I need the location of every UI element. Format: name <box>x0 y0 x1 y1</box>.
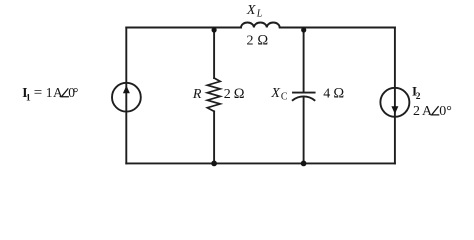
svg-text:A: A <box>422 104 433 119</box>
svg-text:°: ° <box>73 85 78 100</box>
svg-text:2: 2 <box>224 87 231 102</box>
svg-text:1: 1 <box>26 93 31 103</box>
svg-text:Ω: Ω <box>257 33 268 49</box>
svg-text:R: R <box>192 87 202 102</box>
svg-text:X: X <box>270 86 280 101</box>
svg-text:X: X <box>246 3 256 18</box>
svg-text:L: L <box>256 9 263 20</box>
svg-text:2: 2 <box>247 34 254 49</box>
svg-text:1: 1 <box>46 85 53 100</box>
svg-text:A: A <box>53 85 63 100</box>
svg-text:0°: 0° <box>439 104 452 119</box>
svg-text:2: 2 <box>413 104 420 119</box>
svg-text:4: 4 <box>323 87 330 102</box>
svg-text:=: = <box>34 85 42 101</box>
svg-text:Ω: Ω <box>333 86 344 102</box>
svg-text:2: 2 <box>416 92 421 102</box>
svg-text:C: C <box>281 92 288 103</box>
svg-text:Ω: Ω <box>234 86 245 102</box>
